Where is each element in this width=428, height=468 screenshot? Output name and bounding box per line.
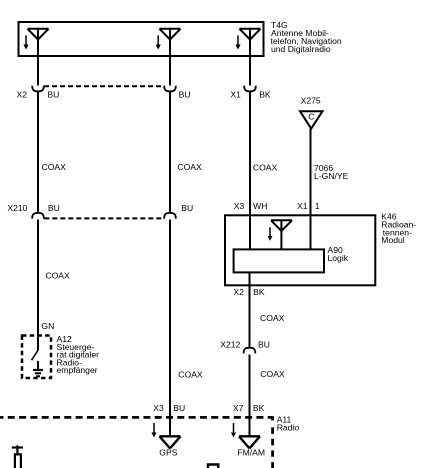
svg-text:C: C [308,112,314,122]
svg-text:1: 1 [315,201,320,211]
svg-text:X275: X275 [301,95,321,105]
svg-text:X210: X210 [7,203,27,213]
svg-text:COAX: COAX [178,370,203,380]
svg-text:X2: X2 [17,90,28,100]
svg-text:FM/AM: FM/AM [237,447,265,457]
svg-text:X1: X1 [297,201,308,211]
svg-text:COAX: COAX [260,313,285,323]
svg-text:COAX: COAX [260,369,285,379]
svg-text:empfänger: empfänger [57,365,98,375]
svg-text:BU: BU [258,339,270,349]
svg-text:BU: BU [47,90,59,100]
svg-text:X1: X1 [230,90,241,100]
svg-text:BU: BU [48,203,60,213]
svg-text:X212: X212 [220,339,240,349]
svg-text:COAX: COAX [45,270,70,280]
svg-text:Modul: Modul [381,235,404,245]
svg-text:GPS: GPS [159,447,177,457]
svg-text:X3: X3 [234,201,245,211]
svg-text:X2: X2 [233,287,244,297]
svg-text:WH: WH [253,201,267,211]
svg-text:BU: BU [173,403,185,413]
svg-text:BK: BK [253,287,265,297]
svg-text:L-GN/YE: L-GN/YE [314,171,349,181]
svg-text:GN: GN [41,321,54,331]
svg-text:X3: X3 [153,403,164,413]
svg-text:und Digitalradio: und Digitalradio [271,44,331,54]
svg-text:COAX: COAX [253,162,278,172]
svg-text:Radio: Radio [277,422,300,432]
svg-text:COAX: COAX [177,162,202,172]
svg-text:BU: BU [179,90,191,100]
svg-text:X7: X7 [233,403,244,413]
svg-text:Logik: Logik [328,253,349,263]
svg-text:BU: BU [181,203,193,213]
svg-text:BK: BK [253,403,265,413]
svg-text:COAX: COAX [42,162,67,172]
svg-text:BK: BK [259,90,271,100]
